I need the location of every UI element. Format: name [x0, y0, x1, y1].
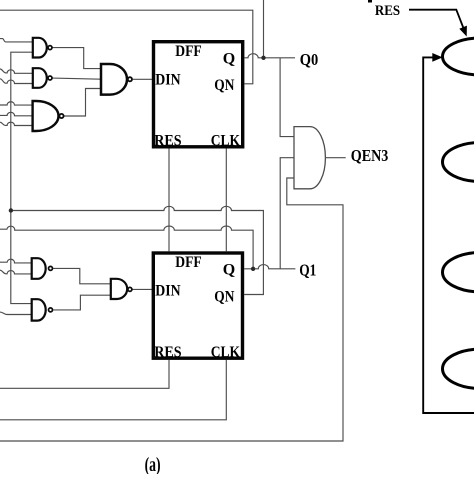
cropped glyph fragment top edge [368, 0, 372, 3]
state S0 ellipse [443, 38, 474, 75]
svg-text:Q0: Q0 [300, 50, 319, 69]
svg-text:Q: Q [223, 262, 235, 279]
svg-text:RES: RES [375, 3, 400, 19]
wire gate G3 input C with jog and hop [0, 122, 33, 125]
wire Q0 output with hop over x=253 [244, 54, 295, 58]
and gate QEN3 [294, 127, 325, 189]
RES arrow to state S0 [409, 10, 467, 37]
wire RES pin DFF1 down to DFF2 top [168, 149, 170, 252]
state S1 ellipse [443, 143, 474, 182]
nand gate G7 second level feeding DIN1 [101, 64, 132, 95]
wire gate G2 output to gate G7 input 2 [53, 78, 102, 79]
wire DIN1 stub [133, 78, 153, 80]
svg-text:DIN: DIN [155, 283, 181, 300]
wire QEN3 output stub [325, 157, 345, 159]
wire DIN2 stub [132, 288, 152, 290]
wire gate G2 input B with jog and hop [0, 79, 33, 84]
svg-text:DFF: DFF [175, 254, 202, 271]
svg-text:DFF: DFF [175, 43, 202, 60]
wire gate G4 output to gate G6 input A [53, 268, 111, 283]
nand gate G5 [32, 299, 53, 320]
wire Q1 branch up to AND gate input 2 [280, 158, 294, 269]
svg-text:Q1: Q1 [299, 260, 316, 279]
wire CLK pin DFF1 down to DFF2 top [225, 149, 227, 252]
wire gate G3 input A with hop [0, 102, 33, 105]
wire1 QN2 feedback: from node x=10.9 y=210.5 right, hops over RES/CLK, down at x=263.4 to QN2 pin [11, 206, 264, 294]
flip-flop U2 DFF box [153, 253, 242, 358]
wire AND gate input 3 from bottom long wire [0, 178, 343, 441]
wire vertical to top edge at x=263.5 [263, 0, 265, 58]
wire gate G3 output to gate G7 input 3 [64, 89, 101, 117]
node junction dot QN2 bus [9, 208, 13, 212]
wire gate G4 input B with jog and hop [0, 270, 32, 274]
wire gate G4 input A with hop [0, 259, 32, 263]
wire QN1 feedback: top wire y=10 left edge to x=253 down to QN pin [0, 10, 253, 84]
svg-text:RES: RES [154, 344, 181, 361]
state S2 ellipse [443, 253, 474, 292]
wire2 Q1 feedback: from left edge, bump over x=10.8, hops over RES/CLK, down at x=253.1 to Q1 node [0, 226, 253, 269]
wire RES pin DFF2 to left edge [0, 360, 169, 388]
svg-text:Q: Q [223, 50, 235, 67]
wire gate G3 input B with hop [0, 112, 33, 116]
nand gate G6 second level feeding DIN2 [111, 279, 132, 299]
svg-text:QN: QN [214, 77, 234, 94]
wire gate G1 input A from left edge with jog [0, 39, 33, 42]
svg-text:DIN: DIN [155, 71, 181, 88]
wire Q0 branch down to AND gate input 1 [280, 58, 294, 137]
svg-text:RES: RES [154, 132, 181, 149]
svg-text:QEN3: QEN3 [351, 146, 389, 165]
node junction dot Q0 [261, 56, 265, 60]
wire Q1 output with hop over x=263.4 [244, 265, 295, 269]
wire gate G1 output to gate G7 input 1 [53, 48, 102, 69]
wire gate G5 output to gate G6 input B [53, 295, 111, 310]
wire vertical bus x=10.8 from G1 input B to G5 input A, node with wire1 [11, 52, 33, 303]
nand gate G3 three-input [33, 101, 64, 131]
wire gate G2 input A with jog and hop [0, 69, 33, 73]
state S3 ellipse [443, 349, 474, 388]
flip-flop U1 DFF box [154, 42, 243, 147]
state diagram loop wire bottom and left [423, 53, 474, 413]
node junction dot Q1 [251, 267, 255, 271]
svg-text:CLK: CLK [211, 132, 241, 149]
svg-text:(a): (a) [145, 454, 161, 474]
wire CLK pin DFF2 to left edge [0, 360, 226, 420]
svg-text:CLK: CLK [211, 344, 241, 361]
wire gate G5 input B with jog [0, 312, 32, 314]
nand gate G1 [33, 38, 52, 58]
svg-text:QN: QN [214, 288, 234, 305]
nand gate G4 [32, 258, 53, 279]
nand gate G2 [33, 68, 52, 88]
